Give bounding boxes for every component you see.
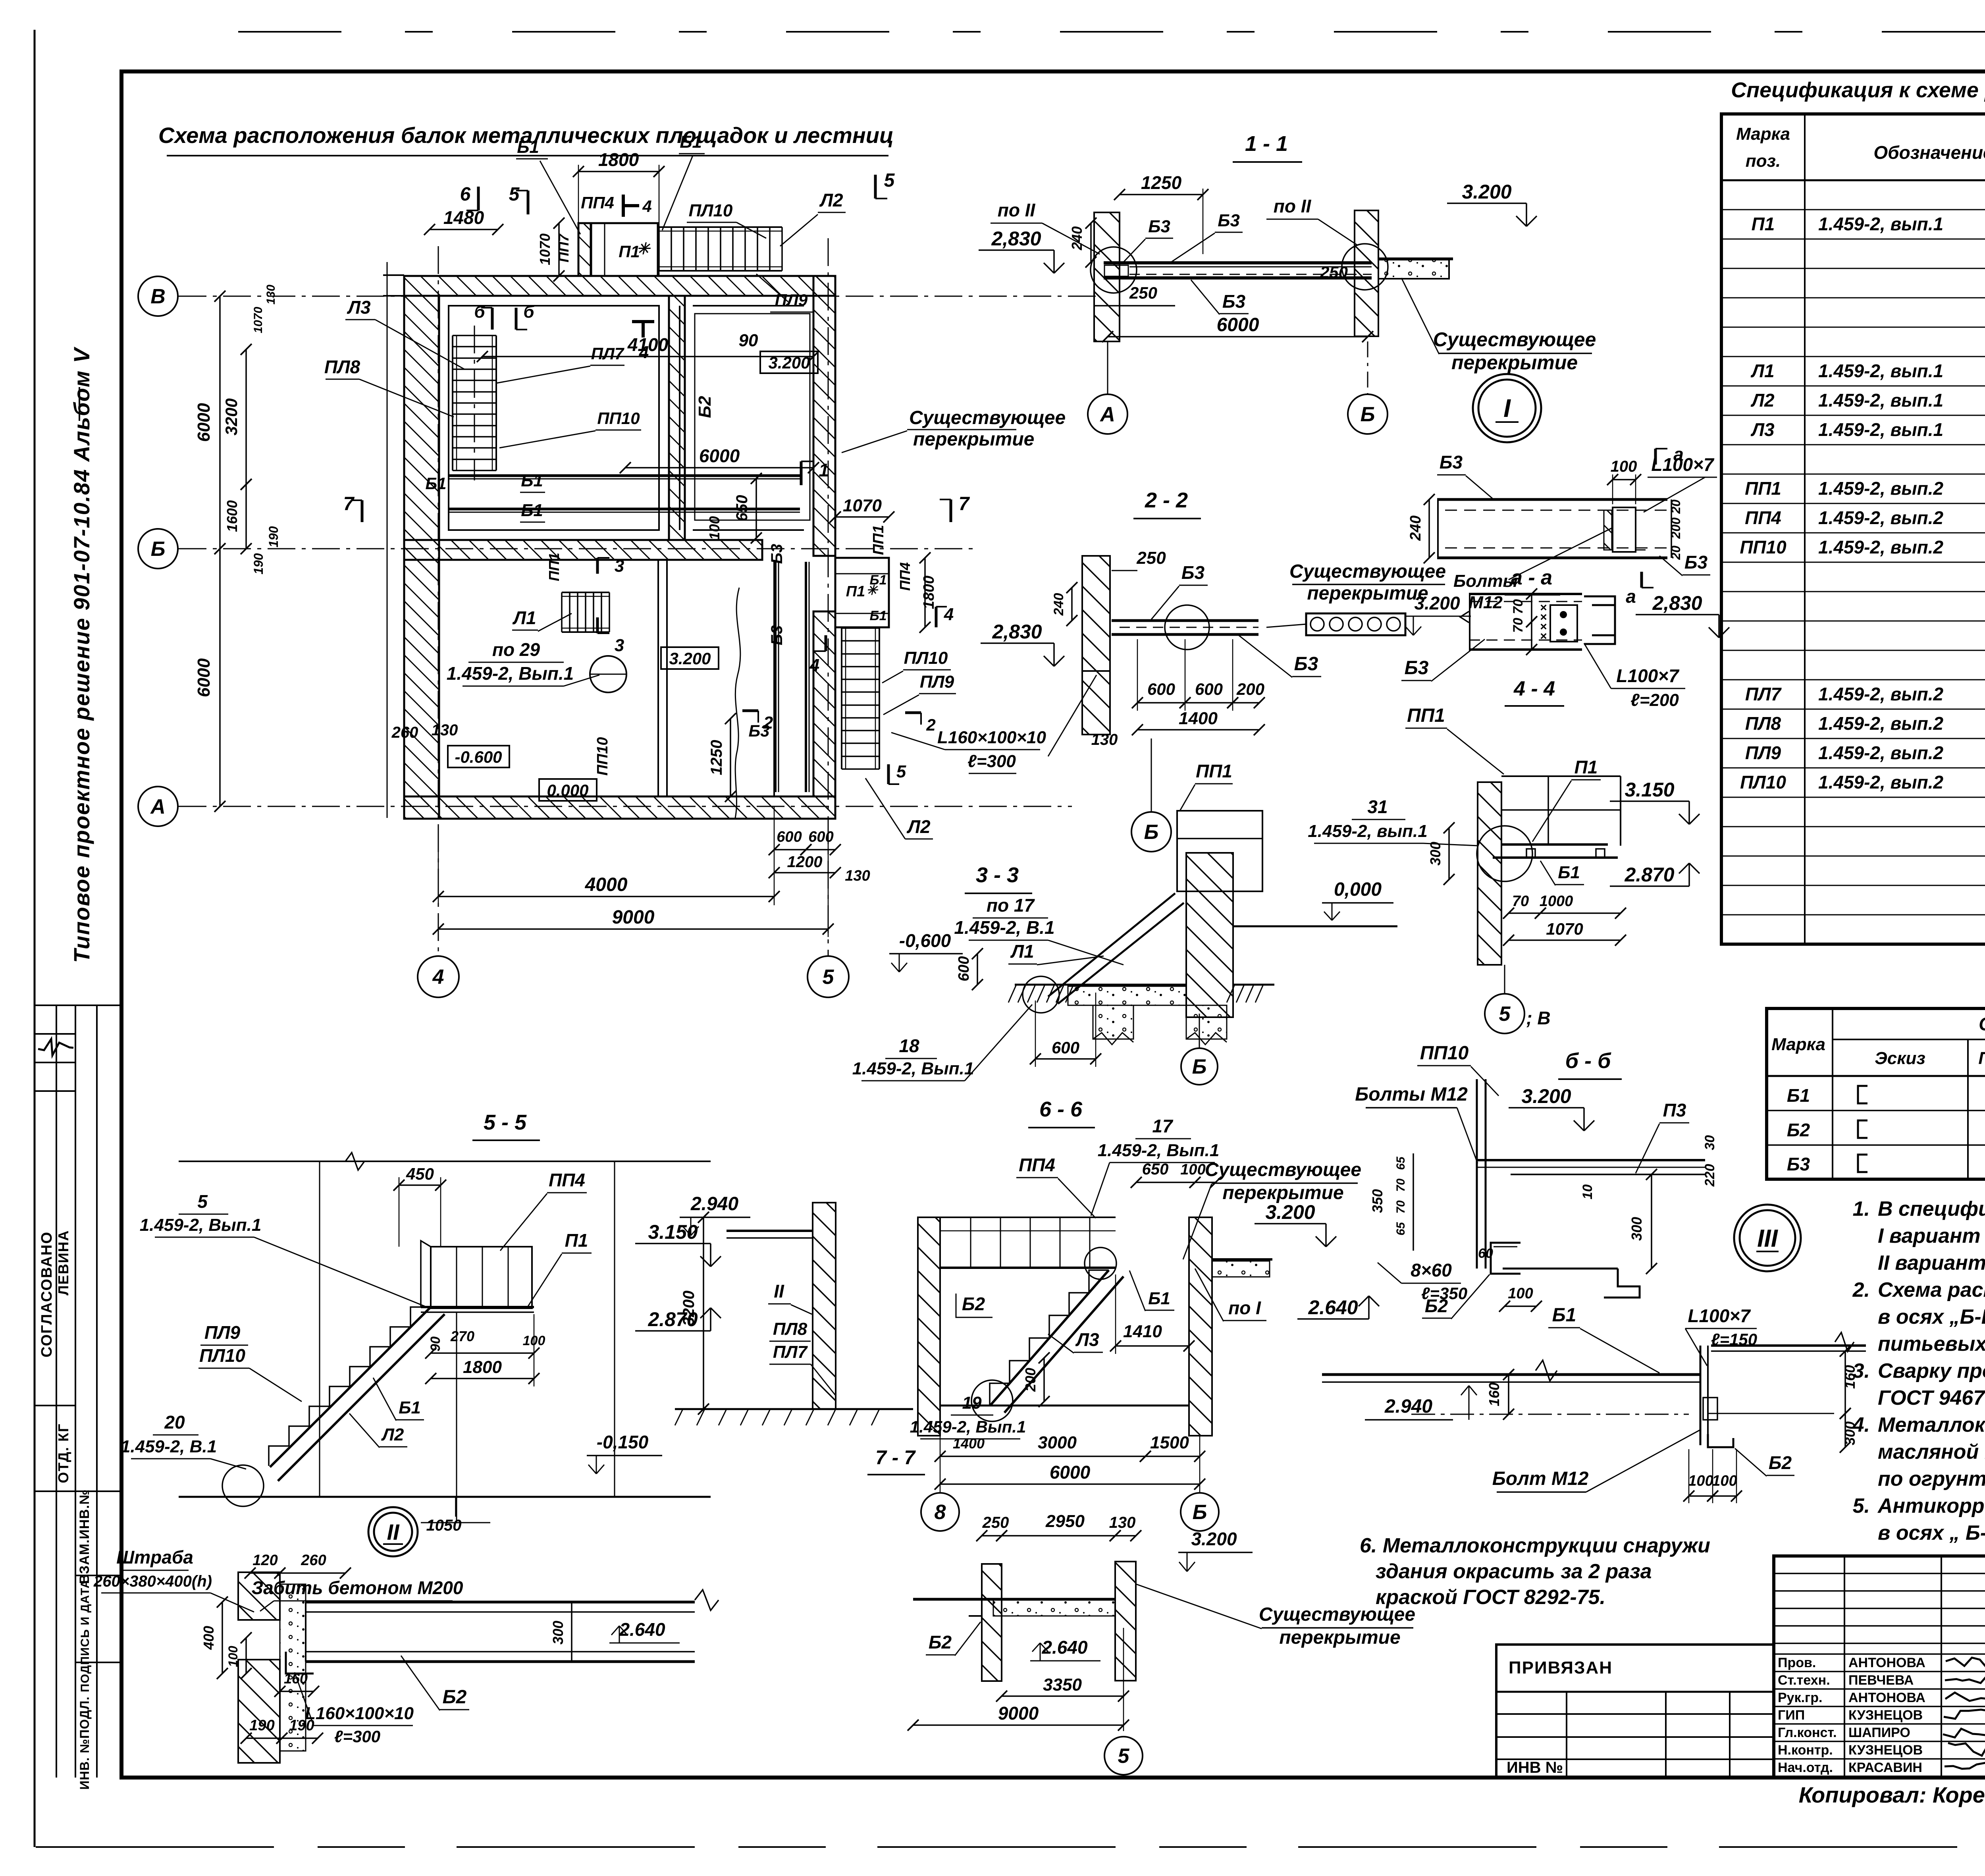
svg-text:Спецификация к схеме расположе: Спецификация к схеме расположения металл…	[1731, 78, 1985, 102]
6-6 stair flight	[990, 1270, 1109, 1406]
svg-text:ЛЕВИНА: ЛЕВИНА	[55, 1230, 71, 1295]
svg-text:Б1: Б1	[870, 608, 887, 623]
svg-text:Ст.техн.: Ст.техн.	[1778, 1673, 1830, 1688]
svg-text:ПЛ7: ПЛ7	[773, 1342, 808, 1362]
svg-text:100: 100	[1180, 1161, 1205, 1178]
svg-text:2.940: 2.940	[690, 1193, 738, 1215]
dim 6000 room	[625, 467, 813, 469]
svg-text:2,830: 2,830	[991, 228, 1041, 250]
svg-text:Л3: Л3	[347, 297, 371, 318]
svg-text:ℓ=300: ℓ=300	[967, 752, 1016, 771]
svg-text:Б1: Б1	[1552, 1305, 1576, 1326]
svg-text:600: 600	[956, 956, 972, 981]
1-1 axis circle А	[1107, 341, 1108, 395]
svg-text:Б3: Б3	[1405, 657, 1429, 679]
svg-text:160: 160	[1486, 1382, 1502, 1406]
svg-text:по 17: по 17	[987, 895, 1035, 916]
svg-text:0,000: 0,000	[1334, 879, 1382, 900]
svg-text:Копировал: Корецкая: Копировал: Корецкая	[1799, 1782, 1985, 1807]
svg-text:1400: 1400	[1179, 709, 1218, 728]
svg-text:2.640: 2.640	[1308, 1296, 1358, 1319]
svg-text:1200: 1200	[787, 853, 823, 871]
svg-text:ПЛ7: ПЛ7	[591, 344, 624, 363]
sheet edge top dashed	[238, 31, 1985, 33]
a-a beam body	[1437, 498, 1667, 501]
svg-text:Б2: Б2	[443, 1687, 467, 1708]
5-5 dim 1050	[455, 1497, 457, 1517]
title block personnel rows	[1774, 1653, 1985, 1655]
svg-text:ПП4: ПП4	[897, 562, 913, 591]
svg-text:2.870: 2.870	[1624, 864, 1674, 886]
svg-text:Болты: Болты	[1453, 571, 1518, 591]
a-a mark a bottom	[1640, 572, 1643, 588]
svg-text:3200: 3200	[680, 1291, 698, 1326]
svg-text:Б1: Б1	[1558, 863, 1580, 882]
svg-text:✳: ✳	[636, 240, 651, 258]
svg-text:Л3: Л3	[1075, 1329, 1099, 1350]
section table grid	[1767, 1008, 1985, 1179]
svg-text:III: III	[1757, 1225, 1778, 1252]
svg-text:Болты М12: Болты М12	[1355, 1084, 1468, 1105]
svg-text:5.: 5.	[1853, 1494, 1870, 1517]
5-5 level 3.150	[635, 1243, 711, 1244]
svg-text:I: I	[1503, 394, 1511, 422]
svg-text:260×380×400(h): 260×380×400(h)	[93, 1573, 212, 1590]
svg-text:Б3: Б3	[1181, 562, 1205, 583]
dim 4100	[482, 356, 813, 357]
svg-text:5: 5	[197, 1191, 208, 1212]
5-5 dim 1800	[431, 1378, 534, 1379]
svg-text:1070: 1070	[1546, 920, 1583, 938]
svg-text:1250: 1250	[1141, 172, 1182, 193]
2-2 node circle	[1165, 605, 1209, 650]
svg-text:Б1: Б1	[870, 573, 887, 588]
7-7 beam left stub	[913, 1598, 982, 1601]
svg-text:Н.контр.: Н.контр.	[1778, 1743, 1833, 1758]
svg-text:Гл.конст.: Гл.конст.	[1778, 1725, 1837, 1740]
svg-text:6000: 6000	[194, 403, 214, 442]
svg-text:ℓ=300: ℓ=300	[334, 1727, 380, 1746]
svg-text:3.200: 3.200	[768, 353, 810, 372]
svg-text:Л3: Л3	[1750, 419, 1775, 440]
2-2 level 2.830	[981, 642, 1054, 644]
svg-text:II: II	[387, 1519, 400, 1544]
svg-text:450: 450	[406, 1165, 434, 1183]
svg-text:L160×100×10: L160×100×10	[937, 728, 1046, 747]
svg-text:600: 600	[1147, 680, 1175, 698]
node5 beam	[1501, 843, 1608, 846]
svg-text:-0,600: -0,600	[899, 930, 951, 951]
svg-text:1.459-2, Вып.1: 1.459-2, Вып.1	[140, 1215, 262, 1235]
svg-text:ПП1: ПП1	[1407, 705, 1445, 726]
svg-text:6000: 6000	[194, 658, 214, 697]
6-6 level 2.640	[1297, 1318, 1369, 1320]
1-1 dim 1250	[1120, 194, 1203, 195]
svg-text:30: 30	[1702, 1135, 1717, 1150]
svg-text:65: 65	[1394, 1156, 1407, 1170]
a-a dim 100	[1613, 479, 1636, 480]
shtraba wall upper	[238, 1572, 280, 1620]
svg-text:Пров.: Пров.	[1778, 1655, 1816, 1670]
plan beams Б3 vertical	[774, 562, 777, 792]
svg-text:260: 260	[391, 724, 418, 741]
III column	[1700, 1346, 1702, 1445]
svg-text:Сечение: Сечение	[1979, 1014, 1985, 1034]
svg-text:Обозначение: Обозначение	[1873, 142, 1985, 163]
III dims 160 300 right	[1844, 1351, 1846, 1413]
svg-text:1070: 1070	[252, 307, 265, 333]
svg-text:1.: 1.	[1853, 1197, 1870, 1220]
section mark 4 mid	[632, 320, 654, 323]
section mark 4 right	[825, 635, 827, 651]
title block revision grid	[1774, 1573, 1985, 1574]
svg-text:2.940: 2.940	[1384, 1396, 1432, 1417]
2-2 hollow slab	[1306, 613, 1405, 635]
axis circle А	[138, 787, 178, 826]
svg-text:1600: 1600	[224, 500, 240, 532]
svg-text:1.459-2, вып.2: 1.459-2, вып.2	[1818, 507, 1944, 528]
6-6 dim 6000	[940, 1483, 1200, 1485]
uzel I circle	[1473, 374, 1541, 442]
svg-text:ПП1: ПП1	[1745, 478, 1781, 499]
section mark 2 b	[905, 711, 921, 714]
svg-text:130: 130	[845, 868, 870, 884]
svg-text:120: 120	[252, 1552, 278, 1569]
svg-text:Б2: Б2	[962, 1294, 985, 1314]
svg-text:Нач.отд.: Нач.отд.	[1778, 1760, 1833, 1775]
svg-text:Б3: Б3	[768, 625, 786, 646]
svg-text:Болт М12: Болт М12	[1492, 1468, 1589, 1489]
svg-text:250: 250	[1320, 263, 1348, 281]
svg-text:1.459-2, Вып.1: 1.459-2, Вып.1	[852, 1059, 974, 1078]
detail II circle	[368, 1507, 418, 1556]
svg-text:3: 3	[615, 556, 624, 576]
dim 1800 right rotated	[924, 558, 926, 627]
4-4 bracket channel	[1584, 596, 1615, 605]
svg-text:Б1: Б1	[680, 132, 702, 152]
svg-text:130: 130	[432, 721, 458, 739]
node5 wall	[1478, 782, 1501, 965]
b-b ledge	[1503, 1268, 1618, 1270]
svg-text:ПП4: ПП4	[1019, 1155, 1055, 1175]
platform П1 right outside	[835, 558, 889, 627]
svg-text:Поз.: Поз.	[1978, 1049, 1985, 1068]
svg-text:ПЛ10: ПЛ10	[1740, 772, 1786, 792]
svg-text:Марка: Марка	[1736, 124, 1790, 144]
plan inner outline right room	[695, 314, 810, 520]
shtraba wall lower	[238, 1660, 280, 1763]
3-3 basement floor slab	[1015, 984, 1186, 986]
b-b dims 65 70 70 65 350	[1413, 1153, 1414, 1251]
svg-text:1500: 1500	[1150, 1433, 1189, 1452]
shtraba niche concrete	[280, 1584, 306, 1751]
svg-text:ПП7: ПП7	[555, 233, 572, 262]
axis line 5 vertical	[828, 238, 829, 957]
svg-text:АНТОНОВА: АНТОНОВА	[1848, 1690, 1925, 1705]
section mark 3 bottom	[596, 617, 599, 633]
svg-text:4: 4	[642, 197, 651, 216]
5-5 dim 450	[399, 1184, 441, 1186]
svg-text:5 - 5: 5 - 5	[484, 1111, 527, 1134]
svg-text:3.200: 3.200	[1265, 1201, 1315, 1223]
III top right beam	[1711, 1344, 1866, 1347]
7-7 ground	[675, 1408, 913, 1410]
svg-text:Металлоконструкции в осях „А-Б: Металлоконструкции в осях „А-Б“ окрасить	[1878, 1413, 1985, 1436]
svg-text:300: 300	[1842, 1421, 1858, 1445]
plan lower room vertical rail lines	[657, 561, 659, 796]
7-7 axis circle 5	[1123, 1628, 1124, 1731]
dim 1480	[430, 229, 498, 230]
svg-text:70: 70	[1394, 1178, 1407, 1192]
section mark 3 top	[596, 558, 599, 574]
svg-text:-0.600: -0.600	[455, 748, 502, 766]
svg-text:4 - 4: 4 - 4	[1513, 677, 1555, 700]
svg-text:70: 70	[1512, 893, 1529, 910]
1-1 axis circle Б	[1367, 341, 1368, 395]
svg-text:ПОДПИСЬ И ДАТА: ПОДПИСЬ И ДАТА	[79, 1579, 92, 1692]
svg-text:7: 7	[959, 494, 970, 515]
svg-text:1.459-2, вып.2: 1.459-2, вып.2	[1818, 772, 1944, 792]
4-4 level 2.830	[1636, 614, 1719, 615]
stair Л1 lower small	[562, 592, 609, 593]
svg-text:ПЕВЧЕВА: ПЕВЧЕВА	[1848, 1673, 1914, 1688]
a-a bolt plate	[1613, 507, 1636, 552]
1-1 level 3.200 right	[1447, 202, 1526, 204]
svg-text:В спецификации в графе „ Колич: В спецификации в графе „ Количество“ дан…	[1878, 1197, 1985, 1220]
svg-text:130: 130	[1109, 1514, 1136, 1531]
svg-text:по II: по II	[1274, 196, 1312, 216]
node5 level 3.150	[1610, 800, 1689, 802]
svg-text:Л1: Л1	[1750, 361, 1774, 381]
dim 1070 top rotated	[558, 223, 560, 276]
svg-text:3.200: 3.200	[1191, 1529, 1237, 1549]
svg-text:ПП4: ПП4	[549, 1170, 585, 1190]
dim 1070 right	[835, 516, 889, 518]
svg-text:3.200: 3.200	[1462, 181, 1511, 203]
III dim 160 left	[1508, 1375, 1509, 1414]
svg-text:Б1: Б1	[1787, 1085, 1810, 1106]
svg-text:600: 600	[1052, 1038, 1079, 1057]
6-6 dim 200	[1043, 1358, 1045, 1402]
svg-text:П1: П1	[846, 583, 865, 600]
svg-text:20: 20	[164, 1412, 185, 1433]
svg-text:4: 4	[639, 343, 649, 362]
3-3 node circle bottom	[1023, 976, 1059, 1013]
svg-text:190: 190	[249, 1717, 274, 1734]
svg-text:ПП4: ПП4	[1745, 507, 1781, 528]
svg-text:100: 100	[706, 516, 723, 540]
svg-text:1400: 1400	[953, 1435, 985, 1452]
1-1 level 2.830	[979, 249, 1054, 251]
svg-text:ИНВ. №ПОДЛ.: ИНВ. №ПОДЛ.	[77, 1696, 92, 1789]
2-2 dims 130 1400	[1137, 729, 1259, 731]
svg-text:ПП1: ПП1	[546, 553, 562, 581]
svg-text:ПЛ8: ПЛ8	[324, 357, 360, 377]
svg-text:100: 100	[1611, 458, 1637, 475]
svg-text:Л2: Л2	[381, 1425, 404, 1444]
6-6 slab right	[1212, 1261, 1270, 1277]
svg-text:240: 240	[1051, 593, 1066, 616]
svg-text:ПЛ7: ПЛ7	[1745, 684, 1782, 704]
svg-text:1.459-2, Вып.1: 1.459-2, Вып.1	[1098, 1141, 1220, 1160]
plan top-left wall stub	[383, 274, 404, 276]
svg-text:650: 650	[1142, 1161, 1169, 1178]
svg-text:I вариант - для питьевых вод,: I вариант - для питьевых вод,	[1878, 1224, 1985, 1247]
axis circle 4 bottom	[418, 956, 459, 997]
3-3 wall column	[1186, 853, 1233, 1017]
svg-text:1.459-2, вып.1: 1.459-2, вып.1	[1818, 361, 1943, 381]
svg-text:2.640: 2.640	[1041, 1637, 1088, 1658]
plan beams Б1 horizontal	[449, 474, 800, 477]
svg-text:Л1: Л1	[512, 607, 536, 628]
svg-text:Б1: Б1	[517, 137, 539, 157]
svg-text:7: 7	[343, 494, 355, 515]
svg-text:Б: Б	[151, 538, 166, 561]
svg-text:200: 200	[1022, 1368, 1039, 1392]
2-2 axis circle 5	[1151, 738, 1152, 812]
svg-text:6000: 6000	[699, 445, 740, 466]
node5 dim 300	[1448, 828, 1450, 879]
plan interior wall	[669, 296, 685, 540]
svg-text:ПЛ9: ПЛ9	[920, 672, 954, 692]
plan right wall upper	[813, 276, 835, 556]
svg-text:ПЛ8: ПЛ8	[773, 1319, 807, 1339]
svg-text:Марка: Марка	[1771, 1035, 1825, 1054]
svg-text:Существующее: Существующее	[1433, 328, 1596, 351]
svg-text:4: 4	[944, 605, 954, 624]
7-7 dim 3350	[1002, 1695, 1124, 1697]
svg-text:ПЛ8: ПЛ8	[1745, 713, 1781, 734]
shtraba angle L160	[286, 1652, 314, 1674]
svg-text:II: II	[774, 1281, 784, 1301]
svg-text:ПЛ10: ПЛ10	[199, 1345, 245, 1366]
svg-text:100: 100	[226, 1646, 240, 1667]
svg-text:600: 600	[808, 829, 833, 845]
2-2 wall	[1082, 556, 1110, 671]
sheet edge bottom dashed	[36, 1846, 1985, 1848]
svg-text:1410: 1410	[1123, 1322, 1162, 1341]
svg-text:1800: 1800	[463, 1357, 502, 1377]
svg-text:ПЛ9: ПЛ9	[775, 291, 808, 309]
dim 650 rotated	[755, 478, 757, 538]
5-5 railing	[431, 1247, 532, 1308]
svg-text:Б: Б	[1193, 1501, 1207, 1524]
plan middle wall	[404, 540, 762, 560]
level -0.600 box	[448, 746, 509, 767]
svg-text:в осях „ Б-В“ см. лист АР-1.: в осях „ Б-В“ см. лист АР-1.	[1878, 1521, 1985, 1544]
svg-text:б: б	[474, 302, 486, 322]
svg-text:2,830: 2,830	[992, 621, 1042, 643]
svg-text:1070: 1070	[537, 233, 553, 265]
svg-text:17: 17	[1152, 1116, 1174, 1136]
svg-text:3.200: 3.200	[1414, 593, 1460, 613]
dim 1200 bottom	[774, 872, 835, 873]
svg-text:6. Металлоконструкции снаружи: 6. Металлоконструкции снаружи	[1360, 1534, 1710, 1557]
b-b level 3.200	[1509, 1107, 1584, 1109]
svg-text:19: 19	[962, 1393, 982, 1413]
3-3 existing floor line	[1233, 925, 1397, 927]
svg-text:масляной краской ГОСТ 695-77: масляной краской ГОСТ 695-77 за 2 раза,	[1878, 1440, 1985, 1463]
svg-text:4000: 4000	[585, 874, 628, 895]
2-2 dim 240	[1071, 588, 1073, 621]
shtraba dims 400 100	[222, 1602, 223, 1674]
svg-text:1250: 1250	[708, 740, 725, 775]
svg-text:ПП1: ПП1	[1196, 761, 1232, 781]
svg-text:300: 300	[550, 1621, 566, 1645]
4-4 beam	[1469, 593, 1582, 595]
svg-text:250: 250	[1136, 548, 1166, 568]
2-2 leader to wall bracket	[1048, 675, 1097, 756]
svg-text:65: 65	[1394, 1222, 1407, 1236]
5-5 top break line	[179, 1161, 711, 1162]
title block frame	[1774, 1556, 1985, 1778]
svg-text:1.459-2, вып.1: 1.459-2, вып.1	[1308, 821, 1427, 841]
3-3 dim 600	[1035, 1058, 1096, 1060]
svg-text:поз.: поз.	[1746, 151, 1781, 171]
svg-text:перекрытие: перекрытие	[1451, 351, 1578, 374]
svg-text:1.459-2, вып.2: 1.459-2, вып.2	[1818, 537, 1944, 557]
3-3 stair Л1 incline	[1048, 893, 1175, 997]
svg-text:ПП10: ПП10	[594, 737, 611, 776]
dim 1800 top	[578, 171, 659, 172]
svg-text:5: 5	[884, 170, 895, 191]
wavy pipe line	[735, 588, 740, 818]
stamp column grid	[56, 1005, 57, 1778]
svg-text:Б3: Б3	[1148, 217, 1170, 236]
svg-text:240: 240	[1069, 226, 1085, 251]
6-6 dims 3000 1500	[940, 1456, 1145, 1457]
svg-text:по огрунтовке.: по огрунтовке.	[1878, 1467, 1985, 1490]
svg-text:Существующее: Существующее	[1259, 1604, 1415, 1625]
svg-text:160: 160	[1842, 1365, 1858, 1389]
svg-text:П1: П1	[565, 1230, 588, 1251]
svg-text:100: 100	[1508, 1285, 1533, 1302]
svg-text:60: 60	[1478, 1246, 1493, 1261]
7-7 right part walls	[982, 1564, 1002, 1681]
svg-text:1800: 1800	[921, 576, 937, 609]
svg-text:Типовое проектное решение 9: Типовое проектное решение 901-07-10.84 А…	[69, 346, 94, 963]
1-1 left node circle	[1091, 247, 1137, 293]
svg-text:по II: по II	[998, 200, 1036, 220]
svg-text:6000: 6000	[1217, 314, 1259, 335]
svg-text:Существующее: Существующее	[909, 407, 1066, 428]
svg-text:3200: 3200	[222, 398, 241, 435]
svg-text:КУЗНЕЦОВ: КУЗНЕЦОВ	[1848, 1743, 1923, 1758]
6-6 stair top node	[1085, 1247, 1116, 1279]
svg-text:1.459-2, вып.2: 1.459-2, вып.2	[1818, 684, 1944, 704]
svg-text:питьевых вод).: питьевых вод).	[1878, 1332, 1985, 1355]
svg-text:б - б: б - б	[1565, 1049, 1611, 1073]
svg-text:L100×7: L100×7	[1651, 454, 1715, 475]
svg-text:Б2: Б2	[695, 396, 715, 418]
sheet edge left	[34, 30, 36, 1847]
svg-text:1.459-2, вып.2: 1.459-2, вып.2	[1818, 478, 1944, 499]
svg-text:перекрытие: перекрытие	[1279, 1627, 1400, 1648]
svg-text:Существующее: Существующее	[1289, 561, 1446, 582]
6-6 level 3.200	[1255, 1223, 1326, 1224]
svg-text:9000: 9000	[612, 907, 655, 928]
svg-text:270: 270	[450, 1328, 474, 1344]
svg-text:600: 600	[1195, 680, 1223, 698]
spec table grid	[1721, 114, 1985, 944]
svg-text:5: 5	[1118, 1745, 1130, 1768]
5-5 ground line	[179, 1496, 711, 1498]
svg-text:Б1: Б1	[425, 474, 446, 493]
svg-text:1: 1	[819, 460, 829, 480]
svg-text:3.200: 3.200	[1521, 1085, 1571, 1107]
svg-text:200: 200	[1236, 680, 1264, 698]
svg-text:300: 300	[1427, 842, 1443, 866]
